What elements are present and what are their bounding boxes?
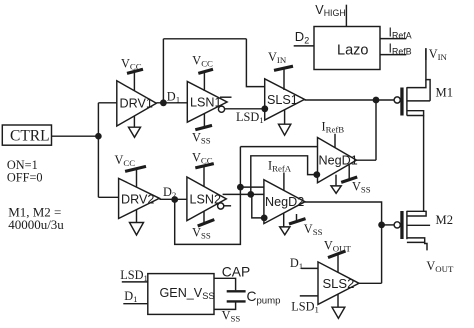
bubble LSN1 inverted output xyxy=(218,106,224,112)
svg-text:VIN: VIN xyxy=(268,50,287,65)
wire D1 input to SLS2 xyxy=(301,267,318,269)
svg-text:VSS: VSS xyxy=(222,309,241,324)
wire CAP from GEN_Vss to Cpump xyxy=(214,278,236,290)
transistor M2 PMOS xyxy=(394,211,430,251)
svg-text:CTRL: CTRL xyxy=(10,128,50,145)
wire IRefB stub from Lazo xyxy=(380,54,406,56)
svg-text:CAP: CAP xyxy=(222,264,250,279)
supply bar VCC of DRV2 xyxy=(125,166,146,171)
bulk terminal M2 xyxy=(407,224,430,226)
wire VOUT stub SLS2 xyxy=(337,254,339,272)
component Lazo box xyxy=(314,27,380,70)
wire D1 up xyxy=(162,39,164,103)
wire SLS2 output xyxy=(359,282,382,284)
svg-text:LSN2: LSN2 xyxy=(190,192,222,206)
svg-text:LSD1: LSD1 xyxy=(291,300,319,315)
wire NegD2 output to M2 gate vertical xyxy=(305,202,382,283)
wire VCC stub LSN1 xyxy=(203,71,205,91)
wire VCC stub DRV1 xyxy=(133,71,135,91)
svg-text:M2: M2 xyxy=(436,213,454,227)
wire VIN to M1 source xyxy=(426,48,430,101)
supply bar VCC of DRV1 xyxy=(127,69,143,73)
svg-text:VSS: VSS xyxy=(192,131,211,146)
wire LSN2 output to NegD2 xyxy=(223,193,264,195)
ground symbol DRV2 xyxy=(130,223,144,236)
gate bar M2 xyxy=(400,211,403,239)
svg-text:NegD1: NegD1 xyxy=(319,154,358,168)
wire VSS stub LSN1 xyxy=(203,114,205,128)
svg-text:VSS: VSS xyxy=(304,222,323,237)
svg-text:40000u/3u: 40000u/3u xyxy=(8,217,64,232)
svg-text:DRV2: DRV2 xyxy=(121,193,154,207)
drain terminal M2 xyxy=(407,238,425,243)
svg-text:LSD1: LSD1 xyxy=(236,110,264,125)
wire M1 gate branch down to NegD1 output xyxy=(375,100,377,160)
ground stub SLS1 xyxy=(284,110,286,125)
svg-text:VCC: VCC xyxy=(192,54,213,69)
supply bar VCC of LSN2 xyxy=(195,164,214,168)
capacitor Cpump top plate xyxy=(227,290,246,292)
ground stub DRV1 xyxy=(133,116,135,127)
svg-text:LSN1: LSN1 xyxy=(190,96,222,110)
buffer LSN1 xyxy=(187,82,227,123)
supply bar VSS of NegD1 xyxy=(341,177,357,182)
svg-text:M1: M1 xyxy=(436,86,454,100)
wire dot1 branch to NegD2 upper input xyxy=(240,186,264,188)
node junction dot2 on LSN2 output xyxy=(247,191,254,198)
wire CTRL to trunk xyxy=(52,135,99,137)
buffer SLS1 xyxy=(265,79,305,120)
gate bar M1 xyxy=(400,88,403,116)
buffer SLS2 xyxy=(318,262,359,305)
buffer LSN2 xyxy=(187,177,226,221)
node M2 gate junction xyxy=(378,222,385,229)
svg-text:D1: D1 xyxy=(290,256,303,271)
svg-text:IRefA: IRefA xyxy=(389,26,412,41)
svg-text:D1: D1 xyxy=(124,289,137,304)
supply bar VSS of LSN2 xyxy=(198,220,215,226)
svg-text:IRefB: IRefB xyxy=(322,120,345,135)
wire VHIGH into Lazo xyxy=(345,5,347,27)
transistor M1 PMOS xyxy=(394,48,430,115)
wire D1 into GEN_Vss xyxy=(123,303,148,305)
node junction dot at NegD2 lower input xyxy=(261,215,268,222)
wire DRV1 output to LSN1 xyxy=(156,102,187,104)
ground stub NegD1 xyxy=(335,175,337,186)
svg-text:VOUT: VOUT xyxy=(426,259,454,274)
wire top route horizontal xyxy=(163,38,246,40)
buffer NegD1 xyxy=(318,138,357,183)
channel M1 xyxy=(406,87,408,115)
wire dot2 branch up to NegD1 lower input xyxy=(251,156,318,195)
svg-text:DRV1: DRV1 xyxy=(120,97,153,111)
wire IRefB stub into NegD1 xyxy=(334,134,336,148)
wire trunk to DRV2 input xyxy=(98,196,118,198)
wire LSD1 into GEN_Vss xyxy=(122,281,148,283)
supply bar VIN of SLS1 xyxy=(274,66,293,70)
svg-text:IRefB: IRefB xyxy=(389,42,412,57)
node junction dot at NegD1 lower input xyxy=(313,171,320,178)
node junction dot1 on D2 route xyxy=(237,184,244,191)
svg-text:D2: D2 xyxy=(163,185,176,200)
source terminal M2 xyxy=(407,211,426,216)
ground symbol DRV1 xyxy=(129,127,141,137)
supply bar VOUT of SLS2 xyxy=(328,251,346,258)
wire VOUT stub from M2 drain xyxy=(425,242,427,250)
wire D2 route to NegD1 upper input xyxy=(240,146,317,148)
bubble M2 gate xyxy=(394,222,400,228)
wire Cpump bottom to GEN_Vss VSS pin xyxy=(214,302,236,309)
ground symbol NegD2 xyxy=(280,227,290,235)
output stub LSN1 apex xyxy=(220,96,232,98)
svg-text:VCC: VCC xyxy=(115,153,136,168)
svg-text:VSS: VSS xyxy=(352,179,371,194)
ground symbol SLS1 xyxy=(279,124,291,135)
wire SLS1 output to M1 gate xyxy=(305,99,395,101)
source terminal M1 xyxy=(407,80,426,88)
svg-text:VCC: VCC xyxy=(121,56,142,71)
svg-text:D2: D2 xyxy=(295,29,309,45)
wire LSD1 input to SLS2 xyxy=(300,295,318,297)
channel M2 xyxy=(406,211,408,239)
svg-text:LSD1: LSD1 xyxy=(120,268,148,283)
svg-text:VCC: VCC xyxy=(192,150,213,165)
svg-text:Lazo: Lazo xyxy=(337,43,368,59)
wire trunk vertical xyxy=(97,103,99,198)
svg-text:NegD2: NegD2 xyxy=(265,195,304,209)
svg-text:VHIGH: VHIGH xyxy=(315,3,345,18)
wire VCC stub DRV2 xyxy=(136,169,138,188)
capacitor Cpump bottom plate xyxy=(227,300,246,302)
ground symbol NegD1 xyxy=(331,186,341,193)
ground symbol SLS2 xyxy=(332,307,345,318)
svg-text:VSS: VSS xyxy=(192,226,211,241)
wire DRV2 output to LSN2 xyxy=(159,198,187,200)
node junction CTRL trunk xyxy=(95,133,102,140)
component CTRL box xyxy=(2,125,51,145)
buffer DRV2 xyxy=(119,178,160,218)
buffer DRV1 xyxy=(117,81,157,126)
wire M1 drain to M2 source xyxy=(423,116,425,212)
node D1 junction dot xyxy=(160,99,167,106)
bubble M1 gate xyxy=(394,97,400,103)
wire VSS stub NegD1 xyxy=(348,165,350,180)
wire IRefA stub from Lazo xyxy=(380,38,406,40)
buffer NegD2 xyxy=(264,180,305,224)
wire VSS stub NegD2 xyxy=(296,214,298,221)
bubble LSN2 inverted output xyxy=(218,203,224,209)
wire D2 into Lazo xyxy=(294,45,314,47)
drain terminal M1 xyxy=(407,111,424,116)
supply bar VCC of LSN1 xyxy=(198,69,213,73)
output stub LSN2 bubble xyxy=(224,205,231,207)
wire down to SLS1 upper input xyxy=(246,39,264,87)
svg-text:SLS2: SLS2 xyxy=(323,276,355,291)
svg-text:IRefA: IRefA xyxy=(268,159,292,174)
svg-text:OFF=0: OFF=0 xyxy=(7,171,43,185)
wire D2 down and around LSN2 xyxy=(175,147,241,245)
wire VIN label line top right xyxy=(425,48,427,60)
ground stub NegD2 xyxy=(283,213,285,227)
node M1 gate junction xyxy=(373,97,380,104)
wire IRefA stub into NegD2 xyxy=(283,173,285,191)
svg-text:VIN: VIN xyxy=(429,47,448,62)
supply bar VSS of NegD2 xyxy=(289,219,306,224)
wire VSS stub LSN2 xyxy=(203,211,205,222)
svg-text:D1: D1 xyxy=(167,90,180,105)
wire VCC stub LSN2 xyxy=(203,166,205,187)
supply bar VSS of LSN1 xyxy=(195,125,212,129)
svg-text:SLS1: SLS1 xyxy=(267,93,298,107)
ground stub DRV2 xyxy=(136,210,138,223)
wire trunk to DRV1 input xyxy=(98,102,116,104)
wire LSD1 from LSN1 bubble to SLS1 xyxy=(225,108,265,110)
wire VIN stub SLS1 xyxy=(283,68,285,90)
wire NegD1 output xyxy=(357,159,377,161)
component GEN_Vss box xyxy=(148,274,214,315)
wire M2 gate xyxy=(382,224,395,226)
svg-text:VOUT: VOUT xyxy=(324,239,352,254)
svg-text:Cpump: Cpump xyxy=(247,289,281,307)
wire dot2 branch down to NegD2 lower input xyxy=(252,194,264,218)
node LSD1 junction dot at SLS1 xyxy=(261,105,268,112)
ground stub SLS2 xyxy=(337,294,339,307)
bulk terminal M1 xyxy=(407,100,430,102)
node D2 junction dot xyxy=(171,196,178,203)
